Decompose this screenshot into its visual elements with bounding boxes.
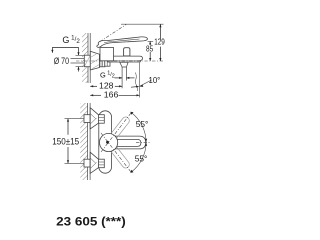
55 degree arc [131, 112, 146, 172]
wall hatch (plan view) [80, 103, 87, 180]
wall hatch (side view) [82, 33, 88, 83]
break squiggle [135, 73, 137, 92]
svg-text:85: 85 [146, 44, 154, 53]
arrows to outlet thread [115, 77, 123, 79]
arc arrowheads at centerline [145, 139, 147, 142]
union square behind wall (side view) [84, 55, 90, 66]
svg-text:129: 129 [154, 38, 165, 47]
lever handle (side view) [97, 37, 148, 48]
dimension 166 [90, 94, 101, 96]
swing dash-dot line upper [101, 112, 132, 152]
svg-text:55°: 55° [135, 154, 148, 164]
hatched union nut (side view) [100, 55, 105, 67]
svg-text:Ø 70: Ø 70 [54, 56, 69, 66]
bottom union (plan view) [84, 159, 90, 167]
pivot dot [106, 141, 109, 144]
supply pipe stub [71, 58, 85, 60]
top union (plan view) [84, 115, 90, 123]
leader for G 1/2 top [51, 47, 53, 52]
dimension 129 [159, 24, 161, 39]
ghost lever rotated down 55 [109, 144, 131, 169]
wall face lines (plan view) [87, 103, 89, 180]
horizontal centerline [136, 141, 150, 143]
ghost lever rotated up 55 [109, 116, 131, 141]
body lower lip [108, 61, 141, 62]
svg-text:10°: 10° [149, 75, 161, 85]
outlet taper [120, 62, 128, 67]
swing dash-dot line lower [101, 133, 132, 173]
150±15 dimension [65, 118, 85, 120]
spout pill (plan view) [106, 136, 146, 149]
lever raised position dash-dot [100, 24, 126, 41]
extension line for 166 / 10 degree reference [139, 63, 141, 98]
cartridge housing block [100, 48, 114, 61]
svg-text:G 1/2: G 1/2 [100, 70, 115, 79]
lever pill (plan view) [111, 139, 141, 146]
body pill (plan view) [99, 111, 112, 173]
dimension 85 [149, 41, 151, 45]
10 degree wedge [140, 80, 152, 86]
O70 extension lines [76, 54, 84, 56]
svg-text:23 605 (***): 23 605 (***) [56, 214, 126, 228]
escutcheon cone (side view) [90, 51, 99, 70]
dimension 128 [90, 85, 97, 87]
body (side view) [108, 56, 143, 61]
cartridge circle (plan view) [100, 133, 118, 151]
O70 lower arrow [78, 67, 80, 72]
svg-text:150±15: 150±15 [52, 137, 79, 147]
outlet tube / extension lines [121, 67, 123, 88]
wall face lines (side view) [87, 33, 89, 83]
diverter knob [124, 48, 130, 56]
svg-text:G 1/2: G 1/2 [62, 35, 80, 45]
svg-text:55°: 55° [136, 119, 149, 129]
right extension lines [121, 23, 164, 25]
lever inner contour [104, 39, 140, 43]
svg-text:166: 166 [104, 90, 119, 100]
